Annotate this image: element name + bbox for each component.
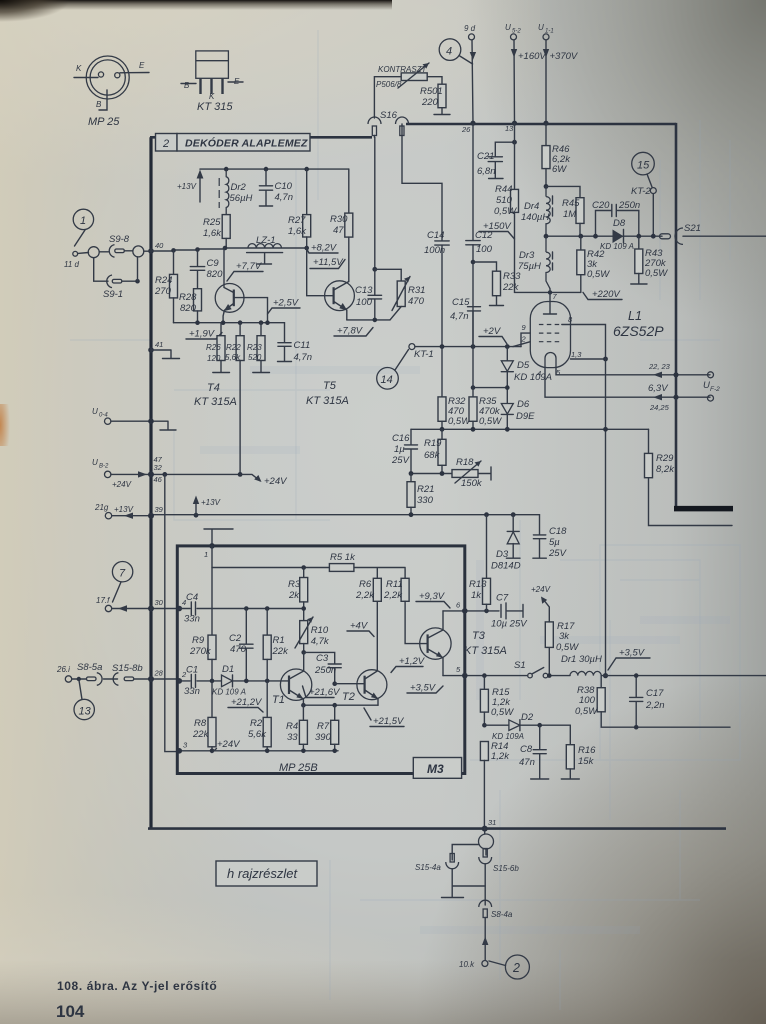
- svg-text:1: 1: [80, 215, 86, 227]
- svg-text:0,5W: 0,5W: [575, 706, 598, 717]
- svg-text:2: 2: [162, 138, 169, 150]
- svg-text:250n: 250n: [314, 665, 336, 676]
- svg-text:3k: 3k: [559, 631, 570, 642]
- supply rail inside M3: [212, 546, 405, 568]
- svg-text:0,5W: 0,5W: [556, 642, 579, 653]
- svg-text:5,6k: 5,6k: [248, 729, 267, 740]
- resistor R45: [576, 198, 584, 224]
- svg-text:0,5W: 0,5W: [645, 268, 668, 279]
- +13V up arrow on bus: [194, 513, 199, 518]
- +8,2V callout: [304, 246, 309, 251]
- svg-text:C13: C13: [355, 285, 373, 296]
- outer box top edge left part: [150, 136, 372, 139]
- svg-text:5,6k: 5,6k: [225, 353, 241, 362]
- svg-text:25V: 25V: [391, 455, 411, 466]
- svg-text:T2: T2: [342, 691, 355, 703]
- svg-text:13: 13: [505, 124, 514, 133]
- svg-text:C1: C1: [186, 665, 198, 676]
- svg-text:510: 510: [496, 195, 513, 206]
- coupling C3 to T2 base: [304, 652, 335, 683]
- svg-text:+24V: +24V: [217, 739, 241, 750]
- circle label 13: [74, 699, 94, 719]
- svg-text:S15-4a: S15-4a: [415, 863, 441, 872]
- svg-text:C2: C2: [229, 633, 242, 644]
- svg-text:R27: R27: [288, 215, 306, 226]
- branch to R45: [546, 186, 580, 197]
- svg-text:D2: D2: [521, 712, 534, 723]
- wire R45 to bus: [579, 223, 581, 236]
- svg-text:+13V: +13V: [114, 505, 134, 514]
- capacitor C18: [533, 515, 546, 559]
- choke Dr4: [546, 186, 550, 236]
- S21 output bus: [546, 235, 662, 237]
- svg-text:100n: 100n: [424, 245, 445, 256]
- svg-text:KT 315A: KT 315A: [464, 645, 507, 657]
- potentiometer R31: [400, 269, 402, 281]
- svg-text:+24V: +24V: [531, 585, 551, 594]
- svg-text:11 d: 11 d: [64, 260, 80, 269]
- svg-text:S15-8b: S15-8b: [112, 663, 143, 674]
- svg-text:C14: C14: [427, 230, 444, 241]
- resistor R33: [493, 271, 501, 296]
- transistor T5: [325, 281, 355, 311]
- svg-text:2,2k: 2,2k: [355, 590, 375, 601]
- svg-text:1: 1: [204, 550, 208, 559]
- header label DEKODER ALAPLEMEZ: [177, 134, 310, 152]
- svg-text:0,5W: 0,5W: [491, 707, 514, 718]
- svg-text:22, 23: 22, 23: [648, 362, 671, 371]
- svg-text:0,5W: 0,5W: [494, 206, 517, 217]
- svg-text:F-2: F-2: [710, 386, 720, 393]
- capacitor C17: [635, 676, 637, 728]
- svg-text:26: 26: [461, 125, 471, 134]
- svg-text:R44: R44: [495, 184, 512, 195]
- svg-text:820: 820: [207, 269, 224, 280]
- svg-text:R24: R24: [155, 275, 172, 286]
- MP25 lead E: [120, 72, 149, 74]
- svg-text:21g: 21g: [94, 503, 109, 512]
- +24V feed wire down to module pin 3: [162, 472, 167, 477]
- svg-text:C15: C15: [452, 297, 470, 308]
- chassis bar over pin 1: [204, 529, 233, 546]
- outer box bottom edge: [148, 827, 726, 830]
- M3 label box: [413, 758, 461, 779]
- capacitor C14: [435, 241, 449, 245]
- circle label 15: [632, 152, 655, 175]
- svg-text:8,2k: 8,2k: [656, 464, 675, 475]
- resistor R11: [404, 569, 406, 579]
- svg-text:39: 39: [155, 505, 164, 514]
- svg-text:D8: D8: [613, 218, 626, 229]
- svg-text:L1: L1: [628, 309, 642, 323]
- svg-text:R1: R1: [273, 635, 285, 646]
- wire R46 to node: [545, 169, 547, 187]
- svg-text:R13: R13: [469, 579, 487, 590]
- inductor LZ-1: [248, 244, 282, 248]
- valve cathode: [545, 353, 556, 368]
- svg-text:22k: 22k: [502, 282, 520, 293]
- svg-text:+13V: +13V: [201, 498, 221, 507]
- node U1-1 on bus: [543, 121, 548, 126]
- svg-text:P506/8: P506/8: [376, 80, 402, 89]
- svg-text:4,7n: 4,7n: [294, 352, 313, 363]
- svg-text:+21,6V: +21,6V: [309, 687, 341, 698]
- svg-text:Dr4: Dr4: [524, 201, 539, 212]
- svg-text:KONTRASZT: KONTRASZT: [378, 65, 428, 74]
- svg-text:C18: C18: [549, 526, 567, 537]
- svg-text:S21: S21: [684, 223, 701, 234]
- resistor R9: [211, 568, 213, 636]
- svg-text:47n: 47n: [519, 757, 535, 768]
- potentiometer R10: [300, 621, 308, 644]
- choke Dr3: [546, 236, 550, 288]
- svg-text:R31: R31: [408, 285, 425, 296]
- svg-text:C21: C21: [477, 151, 494, 162]
- outer box right border: [675, 123, 678, 509]
- svg-text:KT 315A: KT 315A: [194, 396, 237, 408]
- svg-text:U: U: [538, 23, 544, 32]
- wire pot to R501: [427, 77, 442, 84]
- svg-text:6,3V: 6,3V: [648, 383, 669, 394]
- svg-text:0-4: 0-4: [99, 413, 108, 419]
- svg-text:1-1: 1-1: [545, 29, 554, 35]
- MP25 lead K: [74, 77, 98, 79]
- supply bus +13V row: [151, 514, 540, 516]
- junction ring: [479, 834, 494, 849]
- branch to S15-4a: [452, 845, 479, 861]
- resistor R22: [239, 323, 241, 336]
- wire R14 down to node 31: [483, 761, 485, 829]
- svg-text:C9: C9: [207, 258, 220, 269]
- svg-text:6W: 6W: [552, 164, 567, 175]
- terminal U0-4: [105, 418, 111, 424]
- resistor R44: [511, 189, 519, 212]
- terminal 17f: [105, 605, 111, 611]
- wire S16 right pin down to C14 column: [402, 136, 442, 241]
- leader 4 to wire: [459, 56, 473, 65]
- potentiometer R18: [452, 470, 478, 478]
- svg-text:U: U: [505, 23, 511, 32]
- svg-text:KT-1: KT-1: [414, 349, 434, 360]
- svg-text:LZ-1: LZ-1: [256, 235, 276, 246]
- svg-text:6,8n: 6,8n: [477, 166, 496, 177]
- valve anode pin 7: [544, 289, 557, 314]
- resistor R8: [211, 681, 213, 718]
- svg-text:D5: D5: [517, 360, 530, 371]
- svg-text:+2,5V: +2,5V: [273, 298, 300, 309]
- svg-text:R9: R9: [192, 635, 205, 646]
- svg-text:4,7n: 4,7n: [275, 192, 294, 203]
- T5 emitter rail: [347, 319, 390, 321]
- svg-text:C8: C8: [520, 744, 533, 755]
- resistor R28: [194, 289, 202, 311]
- circle label 14: [377, 368, 399, 390]
- node C12 to R33 branch: [471, 260, 476, 265]
- diode D5: [506, 347, 508, 361]
- svg-text:C20: C20: [592, 200, 610, 211]
- KT-1 bus: [415, 346, 521, 348]
- wire node13 down to R44: [514, 123, 516, 189]
- svg-text:R6: R6: [359, 579, 372, 590]
- svg-text:h rajzrészlet: h rajzrészlet: [227, 866, 298, 881]
- svg-text:C11: C11: [294, 340, 311, 351]
- svg-text:KT-2: KT-2: [631, 186, 651, 197]
- svg-text:250n: 250n: [618, 200, 640, 211]
- resistor R1: [266, 609, 268, 636]
- svg-text:47: 47: [333, 225, 344, 236]
- node 26: [470, 121, 475, 126]
- wire U1-1 down, +370V arrow: [545, 40, 547, 123]
- svg-text:41: 41: [155, 340, 163, 349]
- svg-text:B: B: [96, 100, 102, 109]
- KT315 package drawing: [181, 51, 243, 113]
- svg-text:14: 14: [381, 374, 393, 386]
- svg-text:1M: 1M: [563, 209, 576, 220]
- svg-text:DEKÓDER ALAPLEMEZ: DEKÓDER ALAPLEMEZ: [185, 137, 308, 150]
- resistor R6: [376, 569, 378, 579]
- resistor R501: [438, 84, 446, 108]
- stub below R33: [490, 296, 504, 306]
- resistor R19: [441, 429, 443, 439]
- capacitor C21: [489, 142, 515, 178]
- terminal 9d: [469, 34, 475, 40]
- terminal UF-2 bottom: [708, 395, 714, 401]
- svg-text:4,7n: 4,7n: [450, 311, 469, 322]
- svg-text:6ZS52P: 6ZS52P: [613, 323, 664, 339]
- emitter wire node 5: [443, 675, 528, 677]
- ground below R43: [631, 274, 647, 285]
- resistor R43: [636, 234, 641, 239]
- terminal 21g +13V row: [105, 513, 111, 519]
- emitter rail R22 R23 C11: [174, 322, 285, 324]
- svg-text:C17: C17: [646, 688, 664, 699]
- svg-text:R7: R7: [317, 721, 330, 732]
- wire U5-2 down to node 13, +160V arrow: [513, 40, 516, 123]
- svg-text:C12: C12: [475, 230, 493, 241]
- choke Dr2: [224, 167, 229, 172]
- input wire C1 D1: [177, 678, 183, 684]
- svg-text:B-2: B-2: [99, 464, 109, 470]
- capacitor C12: [472, 123, 474, 240]
- svg-text:56µH: 56µH: [230, 193, 253, 204]
- choke Dr1: [570, 671, 601, 675]
- svg-text:R2: R2: [250, 718, 263, 729]
- svg-text:R10: R10: [311, 625, 329, 636]
- svg-text:100: 100: [476, 244, 493, 255]
- valve grids dashed: [539, 325, 562, 342]
- svg-text:D3: D3: [496, 549, 509, 560]
- resistor R32: [441, 347, 443, 397]
- svg-text:108. ábra. Az Y-jel erősítő: 108. ábra. Az Y-jel erősítő: [57, 979, 217, 993]
- resistor R46: [542, 146, 550, 169]
- svg-text:+160V: +160V: [518, 51, 547, 62]
- svg-text:100: 100: [356, 297, 373, 308]
- svg-text:30: 30: [155, 598, 164, 607]
- resistor R16: [569, 725, 571, 745]
- svg-text:15k: 15k: [578, 756, 595, 767]
- thick output bar right: [674, 506, 733, 512]
- svg-text:T1: T1: [272, 694, 285, 706]
- svg-text:U: U: [92, 458, 98, 467]
- svg-text:R29: R29: [656, 453, 674, 464]
- capacitor C9: [197, 250, 199, 289]
- svg-text:R45: R45: [562, 198, 580, 209]
- +13V arrow stub: [199, 174, 201, 202]
- svg-text:S8-5a: S8-5a: [77, 662, 102, 673]
- svg-text:R22: R22: [226, 343, 241, 352]
- wire 9d down to node 26: [472, 40, 473, 123]
- svg-text:MP 25B: MP 25B: [279, 762, 318, 774]
- svg-text:17.f: 17.f: [96, 596, 110, 605]
- resistor R3: [303, 568, 305, 578]
- svg-text:2,2k: 2,2k: [383, 590, 403, 601]
- resistor R15: [483, 676, 485, 690]
- svg-text:0,5W: 0,5W: [448, 416, 471, 427]
- svg-text:KD 109 A: KD 109 A: [600, 242, 634, 251]
- svg-text:+21,5V: +21,5V: [373, 716, 405, 727]
- capacitor C16: [410, 429, 412, 473]
- svg-text:C7: C7: [496, 593, 509, 604]
- svg-text:4: 4: [446, 46, 452, 58]
- svg-text:22k: 22k: [192, 729, 210, 740]
- capacitor C10: [264, 167, 269, 172]
- svg-text:7: 7: [119, 568, 126, 580]
- svg-text:MP 25: MP 25: [88, 116, 120, 128]
- resistor R17: [548, 647, 550, 675]
- resistor R38: [600, 676, 602, 688]
- svg-text:S15-6b: S15-6b: [493, 864, 519, 873]
- resistor R5: [329, 564, 354, 572]
- svg-text:1,6k: 1,6k: [288, 226, 307, 237]
- capacitor C11: [278, 323, 292, 362]
- resistor R26: [220, 323, 222, 336]
- +24V branch arrow: [238, 472, 243, 477]
- +21,5V callout: [364, 708, 371, 720]
- svg-text:+7,7V: +7,7V: [236, 261, 263, 272]
- svg-text:+7,8V: +7,8V: [337, 326, 364, 337]
- feedback wire down: [605, 359, 607, 674]
- svg-text:+13V: +13V: [177, 182, 197, 191]
- svg-text:2k: 2k: [288, 590, 300, 601]
- node 31: [482, 826, 488, 832]
- svg-text:33n: 33n: [184, 686, 200, 697]
- svg-text:R8: R8: [194, 718, 207, 729]
- svg-text:4,7k: 4,7k: [311, 636, 330, 647]
- capacitor C2: [245, 609, 247, 681]
- svg-text:1k: 1k: [471, 590, 482, 601]
- svg-text:KD 109 A: KD 109 A: [212, 688, 246, 697]
- svg-text:5-2: 5-2: [512, 29, 521, 35]
- svg-text:K: K: [76, 64, 82, 73]
- svg-text:26.i: 26.i: [56, 665, 70, 674]
- svg-text:S9-1: S9-1: [103, 289, 123, 300]
- terminal 10.k: [482, 961, 488, 967]
- svg-text:+220V: +220V: [592, 289, 621, 300]
- svg-text:KD 109A: KD 109A: [492, 732, 524, 741]
- svg-text:R28: R28: [179, 292, 197, 303]
- svg-text:R26: R26: [206, 343, 221, 352]
- resistor R7: [334, 705, 336, 720]
- svg-text:B: B: [184, 81, 190, 90]
- svg-text:R18: R18: [456, 457, 474, 468]
- svg-text:Dr3: Dr3: [519, 250, 535, 261]
- svg-text:28: 28: [154, 669, 164, 678]
- svg-text:KT 315A: KT 315A: [306, 395, 349, 407]
- svg-text:140µH: 140µH: [521, 212, 549, 223]
- svg-text:520: 520: [248, 353, 262, 362]
- capacitor C8 electrolytic: [537, 723, 542, 728]
- svg-text:+1,2V: +1,2V: [399, 656, 426, 667]
- terminal 11d: [73, 251, 78, 256]
- svg-text:2: 2: [521, 335, 527, 344]
- svg-text:D814D: D814D: [491, 561, 521, 572]
- svg-text:31: 31: [488, 818, 496, 827]
- wire pot to S16: [374, 77, 401, 118]
- zener D3: [512, 515, 514, 531]
- transistor T3: [420, 628, 451, 659]
- emitter rail T1 T2: [303, 704, 378, 706]
- +13V feed rail: [200, 168, 349, 170]
- diode D1: [222, 675, 233, 687]
- svg-text:820: 820: [180, 303, 197, 314]
- svg-text:T3: T3: [472, 630, 486, 642]
- resistor R42: [578, 234, 583, 239]
- svg-text:D6: D6: [517, 399, 530, 410]
- svg-text:R3: R3: [288, 579, 301, 590]
- MP25 lead B: [99, 90, 107, 110]
- svg-text:R30: R30: [330, 214, 348, 225]
- svg-text:68k: 68k: [424, 450, 441, 461]
- resistor R25: [222, 215, 230, 239]
- transistor T4: [215, 284, 244, 313]
- svg-text:120: 120: [207, 354, 221, 363]
- svg-text:C10: C10: [275, 181, 293, 192]
- input wire with C4: [177, 606, 183, 612]
- MP25 pinout circle: [74, 56, 149, 128]
- svg-text:25V: 25V: [548, 548, 568, 559]
- svg-text:E: E: [139, 61, 145, 70]
- svg-text:5µ: 5µ: [549, 537, 560, 548]
- svg-text:0,5W: 0,5W: [479, 416, 502, 427]
- test point KT-2: [650, 188, 656, 194]
- resistor R30: [348, 169, 350, 213]
- valve L1 envelope: [530, 302, 570, 368]
- svg-text:+2V: +2V: [483, 326, 502, 337]
- svg-text:KT 315: KT 315: [197, 101, 233, 113]
- pin 1,3 wire: [571, 358, 606, 360]
- svg-text:33: 33: [287, 732, 298, 743]
- collector wire node 6: [443, 610, 499, 612]
- wire S16 left pin down to C13/R31: [374, 137, 376, 269]
- connector S15-6b: [485, 849, 487, 855]
- svg-text:22k: 22k: [272, 646, 290, 657]
- node 13: [512, 121, 517, 126]
- svg-text:220: 220: [421, 97, 439, 108]
- +24V arrow above R17: [543, 599, 549, 622]
- resistor R2: [266, 681, 268, 718]
- svg-text:R21: R21: [417, 484, 434, 495]
- terminal U1-1: [543, 34, 549, 40]
- svg-text:S1: S1: [514, 660, 526, 671]
- resistor R4: [302, 705, 304, 720]
- connector S21: [660, 234, 671, 239]
- svg-text:T4: T4: [207, 382, 220, 394]
- svg-text:C4: C4: [186, 592, 198, 603]
- connector S8-4a: [479, 900, 492, 907]
- terminal UF-2 top: [708, 372, 714, 378]
- connector S15-4a: [446, 862, 459, 869]
- svg-text:K: K: [209, 92, 215, 101]
